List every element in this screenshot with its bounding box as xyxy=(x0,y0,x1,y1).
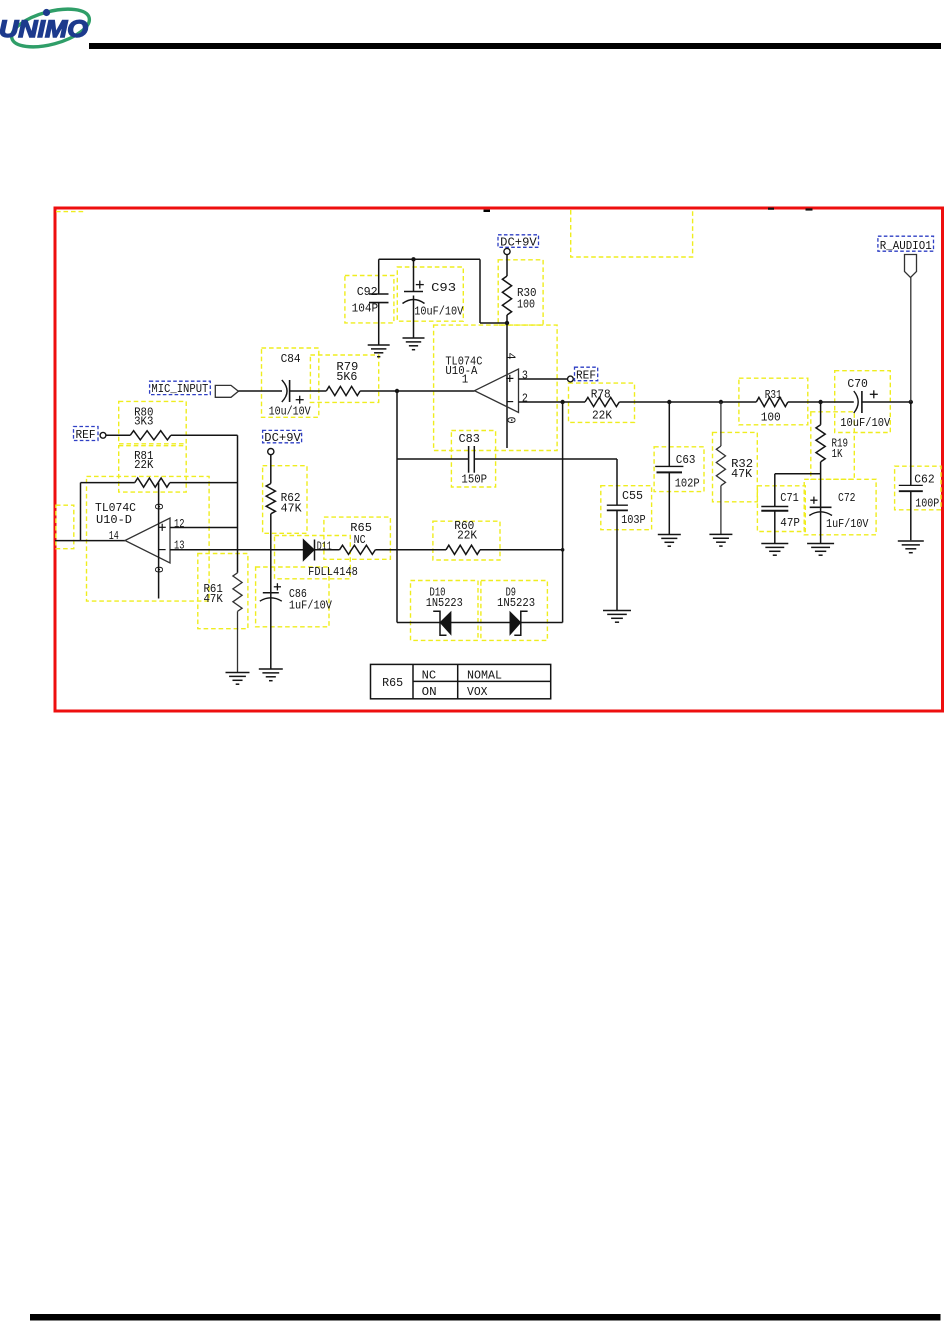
node junction R19 top xyxy=(818,400,822,404)
wire R19 to C71 branch xyxy=(775,473,821,475)
svg-text:102P: 102P xyxy=(675,477,700,491)
svg-text:VOX: VOX xyxy=(467,685,488,699)
svg-text:R78: R78 xyxy=(591,387,611,401)
svg-text:DC+9V: DC+9V xyxy=(500,235,537,249)
svg-text:12: 12 xyxy=(174,517,185,531)
highlight box C86 xyxy=(256,567,329,627)
ground C72 xyxy=(807,543,834,545)
net port MIC_INPUT xyxy=(150,381,239,397)
resistor R32 xyxy=(716,402,753,534)
wire stub tick B on top border xyxy=(768,208,774,210)
highlight box D11 xyxy=(275,536,351,579)
svg-text:U10-D: U10-D xyxy=(96,513,132,527)
svg-text:R65: R65 xyxy=(382,676,403,690)
wire R60 to feedback column xyxy=(480,549,563,551)
highlight box C84 xyxy=(262,348,319,417)
top header rule xyxy=(89,43,941,49)
highlight box C55 xyxy=(601,486,652,530)
svg-text:NC: NC xyxy=(422,669,437,683)
svg-text:0: 0 xyxy=(504,417,518,424)
svg-text:2: 2 xyxy=(522,392,528,406)
net port DC+9V top xyxy=(498,235,539,255)
svg-text:22K: 22K xyxy=(134,458,154,472)
svg-text:5K6: 5K6 xyxy=(336,370,357,384)
svg-text:100: 100 xyxy=(761,411,781,425)
wire MIC_INPUT to C84 xyxy=(238,390,282,392)
svg-text:1: 1 xyxy=(462,372,469,386)
highlight box R78 xyxy=(569,383,635,422)
svg-text:4: 4 xyxy=(504,353,518,360)
ground C92 xyxy=(368,344,390,346)
net port R_AUDIO1 xyxy=(878,236,934,277)
svg-text:1uF/10V: 1uF/10V xyxy=(289,599,333,613)
svg-text:10uF/10V: 10uF/10V xyxy=(414,305,464,319)
wire U10-D pin 13 line xyxy=(170,549,303,551)
svg-text:47K: 47K xyxy=(204,592,224,606)
svg-text:0: 0 xyxy=(151,503,165,510)
svg-text:NOMAL: NOMAL xyxy=(467,669,502,683)
wire stub tick A on top border xyxy=(484,210,491,212)
svg-text:10u/10V: 10u/10V xyxy=(269,404,312,418)
wire R_AUDIO1 down xyxy=(910,278,912,403)
net port REF left xyxy=(74,427,106,443)
svg-text:22K: 22K xyxy=(457,528,478,542)
node junction R30 line xyxy=(505,321,509,325)
wire U10-D power column xyxy=(158,483,160,599)
node junction C63 top xyxy=(667,400,671,404)
capacitor C62 xyxy=(899,402,940,540)
resistor R80 xyxy=(130,406,171,440)
svg-text:150P: 150P xyxy=(461,473,487,487)
wire top supply vertical drop xyxy=(479,259,481,323)
resistor R61 xyxy=(204,573,243,673)
highlight box D9 xyxy=(481,581,548,641)
svg-text:REF: REF xyxy=(576,369,596,383)
highlight box R30 xyxy=(498,260,543,325)
capacitor C55 xyxy=(607,489,646,610)
svg-text:ON: ON xyxy=(422,685,437,699)
ground C93 xyxy=(403,337,425,339)
svg-text:C55: C55 xyxy=(622,489,643,503)
op-amp U10-A xyxy=(445,354,518,412)
highlight box R81 xyxy=(119,446,187,492)
svg-text:47K: 47K xyxy=(281,502,303,516)
svg-text:NC: NC xyxy=(354,533,366,547)
capacitor C84 xyxy=(269,352,312,418)
svg-text:14: 14 xyxy=(109,529,119,543)
capacitor C93 xyxy=(403,259,464,338)
svg-text:100: 100 xyxy=(517,298,535,312)
svg-text:47P: 47P xyxy=(780,516,800,530)
highlight box D10 xyxy=(411,581,479,641)
highlight box R31 xyxy=(739,378,808,425)
highlight box C71 xyxy=(757,486,805,532)
resistor R78 xyxy=(585,387,619,422)
capacitor C86 xyxy=(260,583,333,669)
svg-text:REF: REF xyxy=(76,428,96,442)
resistor R19 xyxy=(816,402,848,507)
wire C84 to R79 xyxy=(290,390,327,392)
svg-text:C71: C71 xyxy=(780,491,799,505)
svg-text:FDLL4148: FDLL4148 xyxy=(308,565,358,579)
ground C55 xyxy=(603,610,631,612)
svg-text:R31: R31 xyxy=(765,388,782,402)
highlight box R32 xyxy=(713,432,758,501)
highlight box R19 xyxy=(811,412,855,480)
node junction R32 top xyxy=(719,400,723,404)
svg-text:1N5223: 1N5223 xyxy=(497,596,535,610)
svg-text:22K: 22K xyxy=(592,408,613,422)
highlight box C93 xyxy=(397,267,463,321)
wire C55 drop xyxy=(616,459,618,505)
UNIMO logo xyxy=(0,2,93,54)
wire D11 to R65 xyxy=(315,549,340,551)
capacitor C92 xyxy=(352,259,389,345)
svg-text:100P: 100P xyxy=(915,497,939,511)
highlight box C63 xyxy=(654,447,704,492)
wire R30 to op-amp pin 4 xyxy=(506,315,508,448)
node junction R60/column xyxy=(561,548,565,552)
op-amp U10-D xyxy=(95,501,170,563)
highlight box U10-D output wire xyxy=(56,505,74,549)
resistor R62 xyxy=(266,455,302,593)
resistor R81 xyxy=(134,449,170,487)
svg-text:3: 3 xyxy=(522,368,528,382)
capacitor C70 xyxy=(840,377,891,430)
wire pin 12 stub xyxy=(170,527,238,529)
net port DC+9V left xyxy=(263,430,302,454)
svg-text:D11: D11 xyxy=(317,539,332,553)
node junction R_AUDIO1 xyxy=(909,400,913,404)
highlight box R79 xyxy=(310,355,378,402)
highlight box U10-A xyxy=(434,325,557,450)
capacitor C83 xyxy=(459,432,488,487)
bottom footer rule xyxy=(30,1314,941,1321)
wire R31 to C70 xyxy=(788,401,854,403)
wire U10-D output xyxy=(55,540,125,542)
svg-text:3K3: 3K3 xyxy=(134,415,153,429)
svg-text:C93: C93 xyxy=(431,281,456,295)
wire R80 to column xyxy=(171,434,238,436)
capacitor C72 xyxy=(809,491,869,544)
net port REF right xyxy=(568,367,598,383)
svg-text:C84: C84 xyxy=(281,352,301,366)
highlight box R60 xyxy=(433,521,500,560)
wire C70 to output node xyxy=(862,401,911,403)
diode D10 xyxy=(426,585,463,635)
ground C71 xyxy=(761,543,788,545)
wire stub tick C on top border xyxy=(806,208,813,210)
svg-text:103P: 103P xyxy=(621,513,646,527)
node junction C93 top xyxy=(411,257,415,261)
R65 option table xyxy=(371,664,551,699)
cropped highlight box top-center xyxy=(571,210,693,257)
highlight box R80 xyxy=(119,401,187,443)
resistor R65 xyxy=(340,521,376,554)
svg-text:C92: C92 xyxy=(357,285,378,299)
wire C83 net horizontal xyxy=(397,458,469,460)
resistor R30 xyxy=(502,276,536,315)
svg-text:C83: C83 xyxy=(459,432,480,446)
highlight box U10-D xyxy=(87,476,210,601)
ground R32 xyxy=(709,533,732,535)
wire U10-A pin 2 to R78 xyxy=(519,401,586,403)
wire feedback column (pin2 down) xyxy=(562,402,564,623)
wire REF to R80 xyxy=(106,434,130,436)
diode D9 xyxy=(497,585,535,635)
node junction pin2 / feedback column xyxy=(560,400,564,404)
highlight box R65 xyxy=(324,517,391,559)
diode D11 xyxy=(303,539,358,579)
highlight box C62 xyxy=(895,466,941,510)
node junction feedback tap xyxy=(395,389,399,393)
svg-text:47K: 47K xyxy=(731,467,753,481)
svg-text:10uF/10V: 10uF/10V xyxy=(840,416,891,430)
svg-text:C72: C72 xyxy=(838,491,856,505)
red figure border frame xyxy=(55,208,943,711)
wire R78 to R31 xyxy=(619,401,756,403)
highlight box R62 xyxy=(263,466,307,534)
highlight box C70 xyxy=(835,371,891,433)
svg-text:C63: C63 xyxy=(676,453,696,467)
highlight box R61 xyxy=(198,554,248,629)
wire top supply horizontal xyxy=(379,258,480,260)
svg-text:C70: C70 xyxy=(847,377,868,391)
resistor R31 xyxy=(756,388,788,424)
svg-text:MIC_INPUT: MIC_INPUT xyxy=(151,382,208,396)
resistor R60 xyxy=(446,519,480,554)
resistor R79 xyxy=(326,360,360,395)
svg-text:0: 0 xyxy=(151,566,165,573)
wire R65 to R60 xyxy=(375,549,446,551)
capacitor C63 xyxy=(655,402,700,535)
ground C62 xyxy=(898,540,924,542)
svg-text:C62: C62 xyxy=(914,473,935,487)
wire R79 to U10-A pin 1 xyxy=(360,390,474,392)
wire U10-A pin 3 to REF xyxy=(519,378,568,380)
wire R80/R81/pin12/R61 column xyxy=(237,435,239,573)
wire zener limiter bottom xyxy=(397,622,440,624)
svg-text:R_AUDIO1: R_AUDIO1 xyxy=(880,239,932,253)
wire U10-A output column xyxy=(396,391,398,623)
svg-text:1K: 1K xyxy=(832,447,844,461)
cropped highlight box fragment top-left xyxy=(56,209,83,212)
wire DC+9V to R30 xyxy=(506,255,508,276)
highlight box C92 xyxy=(345,276,394,323)
svg-text:UNIMO: UNIMO xyxy=(0,16,88,43)
svg-text:1N5223: 1N5223 xyxy=(426,596,463,610)
wire R81 left + feedback to output xyxy=(81,482,135,484)
wire top supply to R30 line xyxy=(480,322,507,324)
ground R61 xyxy=(226,672,250,674)
ground C86 xyxy=(259,668,283,670)
capacitor C71 xyxy=(761,491,800,544)
svg-text:DC+9V: DC+9V xyxy=(264,431,301,445)
highlight box C72 xyxy=(804,479,876,535)
svg-text:1uF/10V: 1uF/10V xyxy=(826,517,869,531)
ground C63 xyxy=(658,534,681,536)
svg-text:104P: 104P xyxy=(352,302,379,316)
highlight box C83 xyxy=(451,431,495,488)
